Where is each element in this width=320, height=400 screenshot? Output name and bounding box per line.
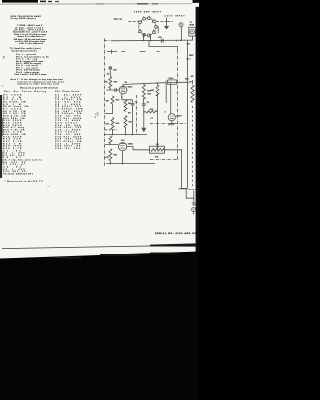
wire R21 down bbox=[109, 161, 111, 164]
svg-text:R20: R20 bbox=[151, 90, 154, 92]
svg-text:2: 2 bbox=[140, 30, 141, 32]
ground bottom right bbox=[192, 203, 196, 206]
resistor R17 zigzag bbox=[124, 116, 127, 128]
wire bottom bus stage2 bbox=[107, 163, 156, 165]
svg-text:Pins 7 and 8 - 6.3V AC 3 amps: Pins 7 and 8 - 6.3V AC 3 amps bbox=[15, 73, 48, 76]
tube V11 envelope bbox=[168, 114, 175, 121]
wire cap branch bbox=[122, 100, 133, 103]
wire J4 stub bbox=[193, 212, 195, 215]
wire C24 down bbox=[109, 70, 111, 76]
svg-text:R21: R21 bbox=[114, 155, 117, 157]
svg-text:Measured at grid of 100 ohm/vo: Measured at grid of 100 ohm/volt bbox=[20, 86, 58, 89]
resistor R20 grid zigzag bbox=[109, 136, 112, 144]
page top border line bbox=[0, 3, 192, 5]
page speckles bbox=[3, 56, 5, 58]
svg-text:TAPE AMP INPUT: TAPE AMP INPUT bbox=[134, 11, 162, 14]
svg-text:285V: 285V bbox=[189, 55, 194, 57]
shield inner dash-dot bbox=[136, 95, 138, 134]
connector J3 jack bbox=[190, 29, 195, 34]
right film strip bbox=[196, 7, 199, 254]
wire stub to shield bbox=[105, 113, 113, 115]
label C26 bbox=[168, 80, 177, 84]
wire rail x181 down bbox=[181, 151, 183, 189]
svg-text:Ckt. No. Value Rating: Ckt. No. Value Rating bbox=[4, 90, 47, 93]
svg-text:Socket (Connections): Socket (Connections) bbox=[12, 49, 37, 52]
label pin numbers socket bbox=[140, 21, 154, 37]
top right film mark bbox=[193, 0, 200, 3]
svg-text:* Measured to B+115 TV: * Measured to B+115 TV bbox=[5, 180, 44, 183]
junction pot rail bbox=[181, 149, 183, 151]
svg-text:with P pad adjusted: with P pad adjusted bbox=[19, 42, 44, 45]
svg-text:Using 6AU6 (Amps): Using 6AU6 (Amps) bbox=[11, 17, 36, 20]
svg-text:P2: P2 bbox=[120, 19, 122, 21]
shield right dash-dot rail bbox=[177, 50, 179, 160]
junction dots coupling bus bbox=[157, 82, 159, 84]
wire R28 leads bbox=[192, 80, 194, 84]
svg-text:1W: 1W bbox=[191, 76, 194, 78]
connector J4 bbox=[192, 208, 196, 212]
wire J2 down bbox=[181, 27, 183, 41]
svg-text:1M: 1M bbox=[156, 144, 159, 146]
svg-text:Ckt. Plate Value: Ckt. Plate Value bbox=[55, 90, 80, 93]
resistor R4 zigzag bbox=[124, 100, 127, 112]
left margin smudge bbox=[0, 95, 2, 178]
wire pot to rail bbox=[165, 149, 182, 152]
svg-text:5: 5 bbox=[153, 30, 154, 32]
capacitor C8 bbox=[131, 103, 135, 104]
svg-text:8.2K: 8.2K bbox=[105, 157, 110, 159]
capacitor C25 in bus bbox=[161, 39, 163, 43]
resistor R28 zigzag bbox=[191, 85, 194, 103]
wire R15 to grid node bbox=[106, 89, 119, 91]
svg-text:C26-1: C26-1 bbox=[168, 78, 173, 80]
top bar dashes bbox=[40, 1, 46, 3]
wire R20 to grid bus bbox=[105, 143, 119, 146]
svg-text:R28: R28 bbox=[185, 78, 188, 80]
wire V11 cathode down bbox=[168, 121, 174, 126]
junction dots top bus bbox=[143, 40, 182, 42]
shield dash right of socket bbox=[156, 21, 173, 23]
wire R17 down bbox=[125, 128, 127, 135]
svg-text:.02: .02 bbox=[107, 74, 110, 76]
svg-text:3: 3 bbox=[144, 35, 145, 37]
svg-text:V9: V9 bbox=[125, 82, 127, 84]
ground stage1 bbox=[143, 112, 145, 128]
resistor R15 zigzag bbox=[109, 77, 112, 89]
wire mid rail bbox=[157, 83, 159, 146]
tube V9 elements bbox=[121, 88, 126, 90]
svg-text:1: 1 bbox=[141, 21, 142, 23]
connector J3 box bbox=[189, 27, 196, 36]
dashes right of elbow bbox=[189, 189, 197, 191]
svg-text:6: 6 bbox=[152, 21, 153, 23]
pot box outline bbox=[150, 146, 165, 153]
wire coupling bus bbox=[123, 82, 188, 84]
resistor R20 mid zigzag bbox=[156, 85, 159, 96]
top film bar bbox=[2, 0, 38, 3]
page bottom border line bbox=[2, 245, 196, 248]
wire main top bus bbox=[105, 40, 110, 42]
scanned page bbox=[0, 0, 199, 259]
ground below CCTV label bbox=[166, 18, 168, 27]
wire R18 leads bbox=[143, 84, 145, 104]
wire cap branch drop bbox=[165, 83, 167, 103]
svg-text:R17: R17 bbox=[129, 122, 132, 124]
svg-text:1M: 1M bbox=[128, 103, 131, 105]
shield left dash-dot rail bbox=[104, 39, 106, 167]
chassis dash-dot line bbox=[150, 123, 186, 125]
pot resistor zigzag bbox=[151, 149, 165, 152]
connector J2 CCTV bbox=[179, 23, 183, 27]
shield tick bbox=[111, 50, 113, 54]
svg-text:.5: .5 bbox=[164, 112, 166, 114]
resistor R16 zigzag bbox=[111, 118, 114, 130]
svg-text:12AT7: 12AT7 bbox=[176, 114, 182, 117]
svg-text:CCTV INPUT: CCTV INPUT bbox=[165, 15, 186, 17]
capacitor C24 electrolytic bbox=[109, 67, 112, 70]
pot wiper arrow bbox=[157, 146, 159, 150]
svg-text:R19: R19 bbox=[150, 109, 153, 111]
svg-text:C7: C7 bbox=[151, 118, 153, 120]
shield dash left of socket bbox=[129, 21, 139, 23]
wire V9 plate up bbox=[122, 84, 124, 86]
capacitor C5 grid bbox=[115, 88, 117, 92]
resistor R18 plate zigzag bbox=[142, 85, 145, 100]
svg-text:SERIAL NO. 4100 AND UP: SERIAL NO. 4100 AND UP bbox=[155, 232, 197, 235]
junction dot cathode bbox=[121, 96, 122, 97]
svg-text:replaced to style with key cod: replaced to style with key code bbox=[17, 83, 60, 86]
svg-text:R16: R16 bbox=[116, 123, 119, 125]
wire J3 down bbox=[192, 36, 194, 40]
svg-text:150: 150 bbox=[106, 101, 109, 103]
svg-text:V9,10,11 6AU6/12 AT7: V9,10,11 6AU6/12 AT7 bbox=[3, 173, 34, 176]
film background bbox=[0, 0, 199, 400]
wire corner to shield bbox=[149, 41, 178, 51]
socket lead pin 4 bbox=[143, 34, 145, 40]
svg-text:Amps R is adjusted at: Amps R is adjusted at bbox=[18, 35, 44, 38]
tube V10 elements bbox=[120, 145, 125, 147]
B+ rail right bbox=[187, 41, 189, 189]
wire V10 cathode down bbox=[122, 151, 124, 163]
svg-text:1M: 1M bbox=[189, 81, 192, 83]
svg-text:1M: 1M bbox=[105, 82, 108, 84]
svg-text:B+ 2: B+ 2 bbox=[187, 59, 191, 61]
wire bottom tie bbox=[182, 188, 188, 190]
tube V9 envelope bbox=[119, 86, 127, 94]
junction dots bottom bus bbox=[112, 134, 134, 136]
resistor R19 horizontal zigzag bbox=[146, 111, 157, 114]
svg-text:R15: R15 bbox=[114, 82, 117, 84]
resistor R21 cathode zigzag bbox=[109, 149, 112, 161]
wire R13 down bbox=[112, 104, 114, 114]
bottom film edge (sloped) bbox=[0, 252, 199, 400]
capacitor C26 series bbox=[166, 80, 168, 84]
wire R16 down bbox=[112, 130, 114, 135]
socket lead pin 5 bbox=[150, 34, 152, 40]
wire V10 plate to pot bbox=[127, 147, 149, 150]
junction dots bottom bus 2 bbox=[110, 163, 124, 165]
wire C6 down bbox=[143, 105, 145, 112]
wire exit elbow bbox=[179, 189, 194, 203]
wire V9 cathode down bbox=[121, 94, 123, 100]
svg-text:C6: C6 bbox=[147, 102, 149, 104]
wire grid drop follower bbox=[170, 83, 172, 114]
chassis dash bottom bbox=[150, 159, 179, 161]
socket right elbow wire bbox=[157, 27, 158, 33]
svg-text:V10: V10 bbox=[121, 140, 124, 142]
svg-text:MON: MON bbox=[190, 25, 195, 27]
svg-text:C25: C25 bbox=[158, 37, 161, 39]
bottom film ragged specks bbox=[55, 257, 81, 258]
wire C8 down bbox=[132, 105, 134, 135]
svg-text:R13: R13 bbox=[116, 100, 119, 102]
tube V11 elements bbox=[170, 115, 174, 117]
resistor R13 zigzag bbox=[111, 96, 114, 104]
tube socket P2 pins bbox=[138, 16, 159, 38]
shield dash stage2 bbox=[105, 129, 117, 131]
tube socket P2 outline bbox=[139, 18, 156, 35]
shield box top dashed bbox=[107, 50, 160, 52]
tube V10 envelope bbox=[119, 143, 127, 151]
capacitor C6 coupling bbox=[142, 104, 146, 105]
wire R19 right bbox=[144, 111, 146, 113]
svg-text:6AU7: 6AU7 bbox=[128, 86, 133, 89]
wire bottom bus stage1 bbox=[105, 134, 148, 136]
wire R28 lower dashed bbox=[192, 106, 194, 187]
